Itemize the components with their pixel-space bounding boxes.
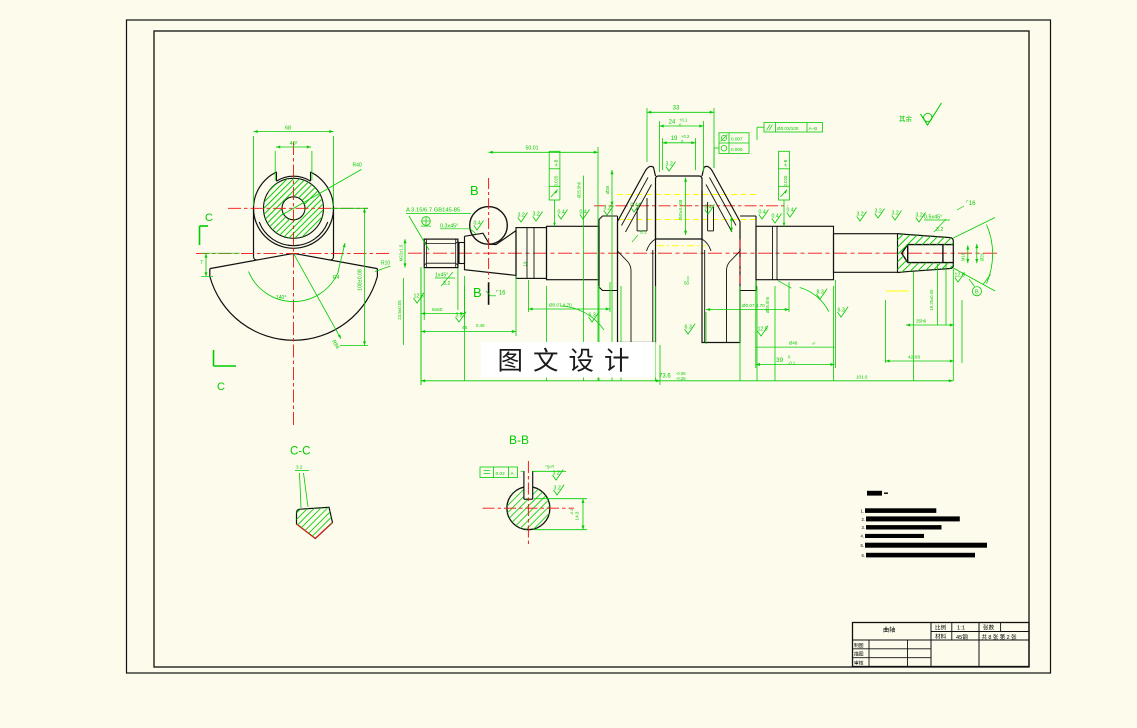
- svg-text:共 8 张 第 2 张: 共 8 张 第 2 张: [982, 633, 1018, 641]
- svg-text:1.: 1.: [861, 508, 865, 513]
- svg-text:3.2: 3.2: [936, 227, 943, 233]
- B-B circle: [507, 487, 550, 530]
- svg-text:0.4: 0.4: [759, 210, 766, 216]
- svg-text:张数: 张数: [983, 624, 995, 632]
- left view: main axis centerline: [196, 252, 390, 254]
- svg-text:1:1: 1:1: [957, 626, 965, 632]
- watermark box: [481, 342, 656, 378]
- left view: top width dimension: [253, 136, 255, 206]
- svg-text:A 3.15/6.7 GB145-85: A 3.15/6.7 GB145-85: [406, 208, 460, 214]
- circled B datum: [972, 287, 981, 296]
- roughness marks: [474, 221, 484, 231]
- svg-text:-0.1: -0.1: [788, 361, 796, 366]
- left view: bore horizontal centerline: [228, 207, 368, 209]
- B-B keyway top ticks: [521, 470, 524, 472]
- red vertical through detail B: [488, 178, 490, 279]
- svg-text:-0.05: -0.05: [676, 371, 686, 376]
- B-B fcf box: [480, 467, 518, 478]
- title block grid: [853, 639, 1030, 641]
- fcf circular runout right: [779, 151, 790, 200]
- dim 50.01 left top: [597, 147, 599, 381]
- svg-text:1x45°: 1x45°: [435, 273, 448, 279]
- main view: right shaft: [834, 234, 898, 273]
- main view: relief groove collar: [459, 243, 465, 264]
- left view: counterweight fan outline: [210, 254, 378, 269]
- svg-text:7: 7: [200, 260, 203, 266]
- dim 19 +0.2: [662, 138, 664, 170]
- left view: counterweight boss outer circle: [254, 168, 334, 248]
- svg-text:0.4: 0.4: [787, 208, 794, 214]
- svg-text:B: B: [975, 290, 979, 296]
- svg-text:材料: 材料: [935, 633, 947, 641]
- left view: notch at top of boss: [277, 167, 311, 178]
- left view: boss inner bottom arc: [259, 222, 328, 246]
- left view: bearing bore circle (hatched ring outer): [264, 178, 324, 238]
- main view: yellow hidden lines: [617, 194, 757, 196]
- svg-text:39: 39: [776, 357, 784, 364]
- svg-text:0.5x45°: 0.5x45°: [924, 215, 942, 221]
- svg-text:Ø38: Ø38: [605, 185, 610, 194]
- B-B centerlines: [527, 461, 529, 544]
- tech requirements heading bar: [867, 491, 882, 496]
- tech requirement line 4: [865, 534, 924, 538]
- svg-text:6.3: 6.3: [838, 308, 845, 314]
- B-B keyway: [524, 485, 533, 499]
- svg-text:R4: R4: [333, 275, 340, 281]
- svg-text:Ø48: Ø48: [789, 341, 798, 346]
- svg-text:3.2: 3.2: [666, 162, 673, 168]
- main view: right collar: [740, 216, 756, 291]
- svg-text:19: 19: [671, 136, 678, 142]
- section C-C leaders: [300, 473, 302, 508]
- svg-text:A-B: A-B: [783, 159, 788, 166]
- fcf parallelism box: [764, 123, 823, 133]
- svg-text:B: B: [473, 285, 482, 300]
- section C-C shape: [297, 507, 333, 538]
- tech requirement line 5: [865, 543, 987, 548]
- svg-text:0.005: 0.005: [731, 147, 743, 152]
- svg-text:3.2: 3.2: [554, 486, 561, 492]
- tech requirement line 1: [865, 508, 936, 513]
- svg-text:0.4: 0.4: [580, 210, 587, 216]
- left view: radius leader upper: [281, 169, 362, 215]
- svg-text:0.4: 0.4: [631, 203, 638, 209]
- svg-text:M18: M18: [961, 252, 966, 261]
- svg-text:0.3x45°: 0.3x45°: [440, 223, 458, 229]
- left view: boss tangent sides: [253, 208, 255, 256]
- svg-text:Ø0.07 4.70: Ø0.07 4.70: [742, 303, 765, 308]
- main view: left collar: [599, 216, 618, 291]
- svg-text:描图: 描图: [854, 651, 864, 658]
- svg-text:Ø25.5h6: Ø25.5h6: [765, 296, 770, 313]
- svg-text:3.2: 3.2: [533, 212, 540, 218]
- svg-text:-0.2: -0.2: [570, 509, 574, 516]
- svg-text:0.4: 0.4: [772, 214, 779, 220]
- svg-text:曲轴: 曲轴: [883, 626, 895, 634]
- left view: vertical centerline: [293, 142, 295, 428]
- svg-text:3.2: 3.2: [857, 212, 864, 218]
- svg-text:⌜16: ⌜16: [966, 200, 976, 207]
- svg-text:42.08: 42.08: [908, 355, 920, 361]
- tech requirement line 6: [866, 553, 975, 558]
- svg-text:14.3: 14.3: [575, 511, 580, 520]
- right under-thread dims: [913, 272, 915, 381]
- section cut marker C bottom: [213, 350, 215, 366]
- svg-text:140°: 140°: [276, 295, 286, 301]
- svg-text:A-B: A-B: [554, 159, 559, 166]
- svg-text:68: 68: [285, 126, 291, 132]
- main view: crankpin centerline: [594, 205, 788, 207]
- svg-text:3.2: 3.2: [875, 209, 882, 215]
- svg-text:4.: 4.: [861, 534, 865, 539]
- svg-text:3.: 3.: [862, 525, 866, 530]
- main view: right tip inner thread body: [902, 245, 954, 263]
- fcf roundness box: [719, 133, 749, 154]
- roughness below: [414, 293, 425, 303]
- svg-text:其余: 其余: [899, 114, 913, 123]
- title block outer: [853, 623, 1030, 667]
- svg-text:0.4: 0.4: [558, 210, 565, 216]
- svg-text:B-B: B-B: [509, 433, 529, 447]
- svg-text:制图: 制图: [854, 642, 864, 649]
- left view: notch width dimension: [274, 151, 276, 181]
- mid dim phi 4.7 right: [705, 312, 707, 344]
- main view: left threaded stub: [424, 239, 458, 268]
- svg-text:⌜5ⁿ²³: ⌜5ⁿ²³: [545, 465, 555, 470]
- svg-text:图文设计: 图文设计: [497, 347, 639, 376]
- svg-text:B: B: [470, 183, 479, 198]
- svg-text:5.1: 5.1: [640, 230, 647, 235]
- svg-text:6.3: 6.3: [685, 325, 692, 331]
- main view: section line B vertical black: [488, 282, 490, 305]
- bottom overall dim: [421, 380, 953, 382]
- main view: left main journal: [547, 226, 600, 279]
- main view: tapered journal: [465, 231, 517, 276]
- svg-text:Ø20: Ø20: [980, 252, 985, 261]
- ext lines to bottom dim: [464, 286, 466, 381]
- svg-text:24: 24: [669, 120, 676, 126]
- left rotated dims: [404, 239, 406, 268]
- svg-text:M22x1.5: M22x1.5: [399, 244, 404, 261]
- svg-text:2.: 2.: [862, 517, 866, 522]
- svg-text:50: 50: [684, 281, 690, 286]
- main view: crankpin: [656, 176, 703, 239]
- svg-text:40²: 40²: [290, 141, 298, 147]
- svg-text:-0.25: -0.25: [676, 376, 686, 381]
- svg-text:33: 33: [673, 105, 680, 112]
- svg-text:50.01: 50.01: [526, 146, 539, 152]
- main view: detail circle B: [470, 207, 508, 245]
- svg-text:0.007: 0.007: [731, 137, 743, 142]
- svg-text:A–B: A–B: [809, 126, 818, 131]
- dim 24 +0.1: [659, 121, 661, 172]
- svg-text:19.25±0.05: 19.25±0.05: [929, 289, 934, 311]
- journal dia rotated dim: [583, 176, 585, 381]
- svg-text:Ø25.5h6: Ø25.5h6: [577, 181, 582, 198]
- svg-text:5.: 5.: [861, 543, 865, 548]
- svg-text:23.5±0.05: 23.5±0.05: [397, 300, 402, 320]
- svg-text:3.2: 3.2: [553, 471, 560, 477]
- bottom small dims left: [420, 267, 422, 385]
- svg-text:108±0.08: 108±0.08: [358, 269, 364, 291]
- svg-text:8x60: 8x60: [432, 307, 443, 313]
- svg-text:3.2: 3.2: [518, 213, 525, 219]
- main view: left crank web: [618, 166, 656, 342]
- dim 39: [755, 280, 757, 368]
- main view: right crank web: [702, 166, 740, 342]
- section C-C red cut edges: [297, 524, 316, 539]
- left view: right vertical dimension: [330, 207, 368, 209]
- inner drawing frame: [154, 31, 1029, 667]
- left view: center hole: [282, 197, 305, 220]
- left view: small left dim: [205, 253, 207, 276]
- svg-text:比例: 比例: [935, 624, 947, 632]
- svg-text:C-C: C-C: [290, 446, 310, 458]
- tech requirement line 3: [866, 525, 942, 529]
- svg-text:Ø40±0.008: Ø40±0.008: [678, 199, 683, 220]
- main view: axis centerline: [408, 252, 998, 254]
- svg-text:45钢: 45钢: [956, 633, 968, 641]
- svg-text:8.3: 8.3: [817, 290, 824, 296]
- main view: right threaded tip outer contour: [897, 234, 953, 273]
- dim 33: [646, 108, 648, 162]
- svg-text:R10: R10: [381, 261, 390, 267]
- angle arc right of web: [800, 288, 829, 312]
- svg-text:3.2: 3.2: [892, 211, 899, 217]
- svg-text:C: C: [217, 381, 225, 393]
- main view: journal 1: [516, 228, 547, 279]
- svg-text:0.45: 0.45: [476, 323, 485, 328]
- outer drawing frame: [127, 20, 1051, 673]
- svg-text:19: 19: [523, 261, 528, 266]
- svg-text:35h6: 35h6: [916, 319, 927, 324]
- mid dim phi 4.7 left: [528, 280, 530, 312]
- svg-text:12.5: 12.5: [758, 327, 768, 333]
- svg-text:审核: 审核: [854, 659, 864, 666]
- svg-text:12.5: 12.5: [955, 273, 965, 279]
- B-B right annotations: [533, 470, 566, 472]
- main view: right main journal: [756, 226, 834, 279]
- left view: boss-to-wing fillets: [254, 257, 258, 260]
- svg-text:0.4: 0.4: [474, 221, 481, 227]
- left view: radius leader lower: [294, 254, 342, 339]
- svg-text:6.: 6.: [862, 553, 866, 558]
- left view: wing leaders: [338, 243, 345, 272]
- left view: angle arc: [249, 272, 339, 302]
- svg-text:3.2: 3.2: [604, 206, 611, 212]
- svg-text:3.2: 3.2: [296, 465, 303, 470]
- svg-text:12.5: 12.5: [414, 294, 424, 300]
- svg-text:Ø0.03/100: Ø0.03/100: [777, 126, 799, 131]
- svg-text:73.6: 73.6: [659, 374, 671, 380]
- svg-text:3.2: 3.2: [916, 213, 923, 219]
- svg-text:R40: R40: [353, 163, 362, 169]
- svg-text:C: C: [205, 212, 213, 224]
- svg-text:0.02: 0.02: [496, 471, 506, 477]
- svg-text:0.025: 0.025: [554, 175, 559, 187]
- svg-text:101.6: 101.6: [856, 375, 868, 380]
- svg-text:⌜16: ⌜16: [496, 290, 506, 297]
- tech requirement line 2: [866, 516, 960, 521]
- fcf circular runout left: [549, 151, 560, 200]
- svg-text:0.025: 0.025: [783, 175, 788, 187]
- svg-text:0.4: 0.4: [705, 205, 712, 211]
- right fan dim: [953, 218, 995, 239]
